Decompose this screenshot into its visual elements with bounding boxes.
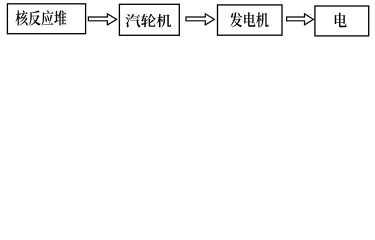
arrow 3: generator to electricity [287, 14, 314, 25]
arrow 1: reactor to turbine [88, 14, 116, 25]
arrow 2: turbine to generator [186, 14, 214, 25]
box: nuclear reactor (核反应堆) [7, 4, 85, 34]
box: steam turbine (汽轮机) [119, 4, 179, 35]
label: 发电机 [230, 12, 269, 27]
box: electricity (电) [315, 6, 369, 36]
box: generator (发电机) [218, 5, 283, 35]
label: 汽轮机 [126, 14, 172, 27]
label: 电 [335, 13, 347, 28]
label: 核反应堆 [16, 10, 67, 25]
